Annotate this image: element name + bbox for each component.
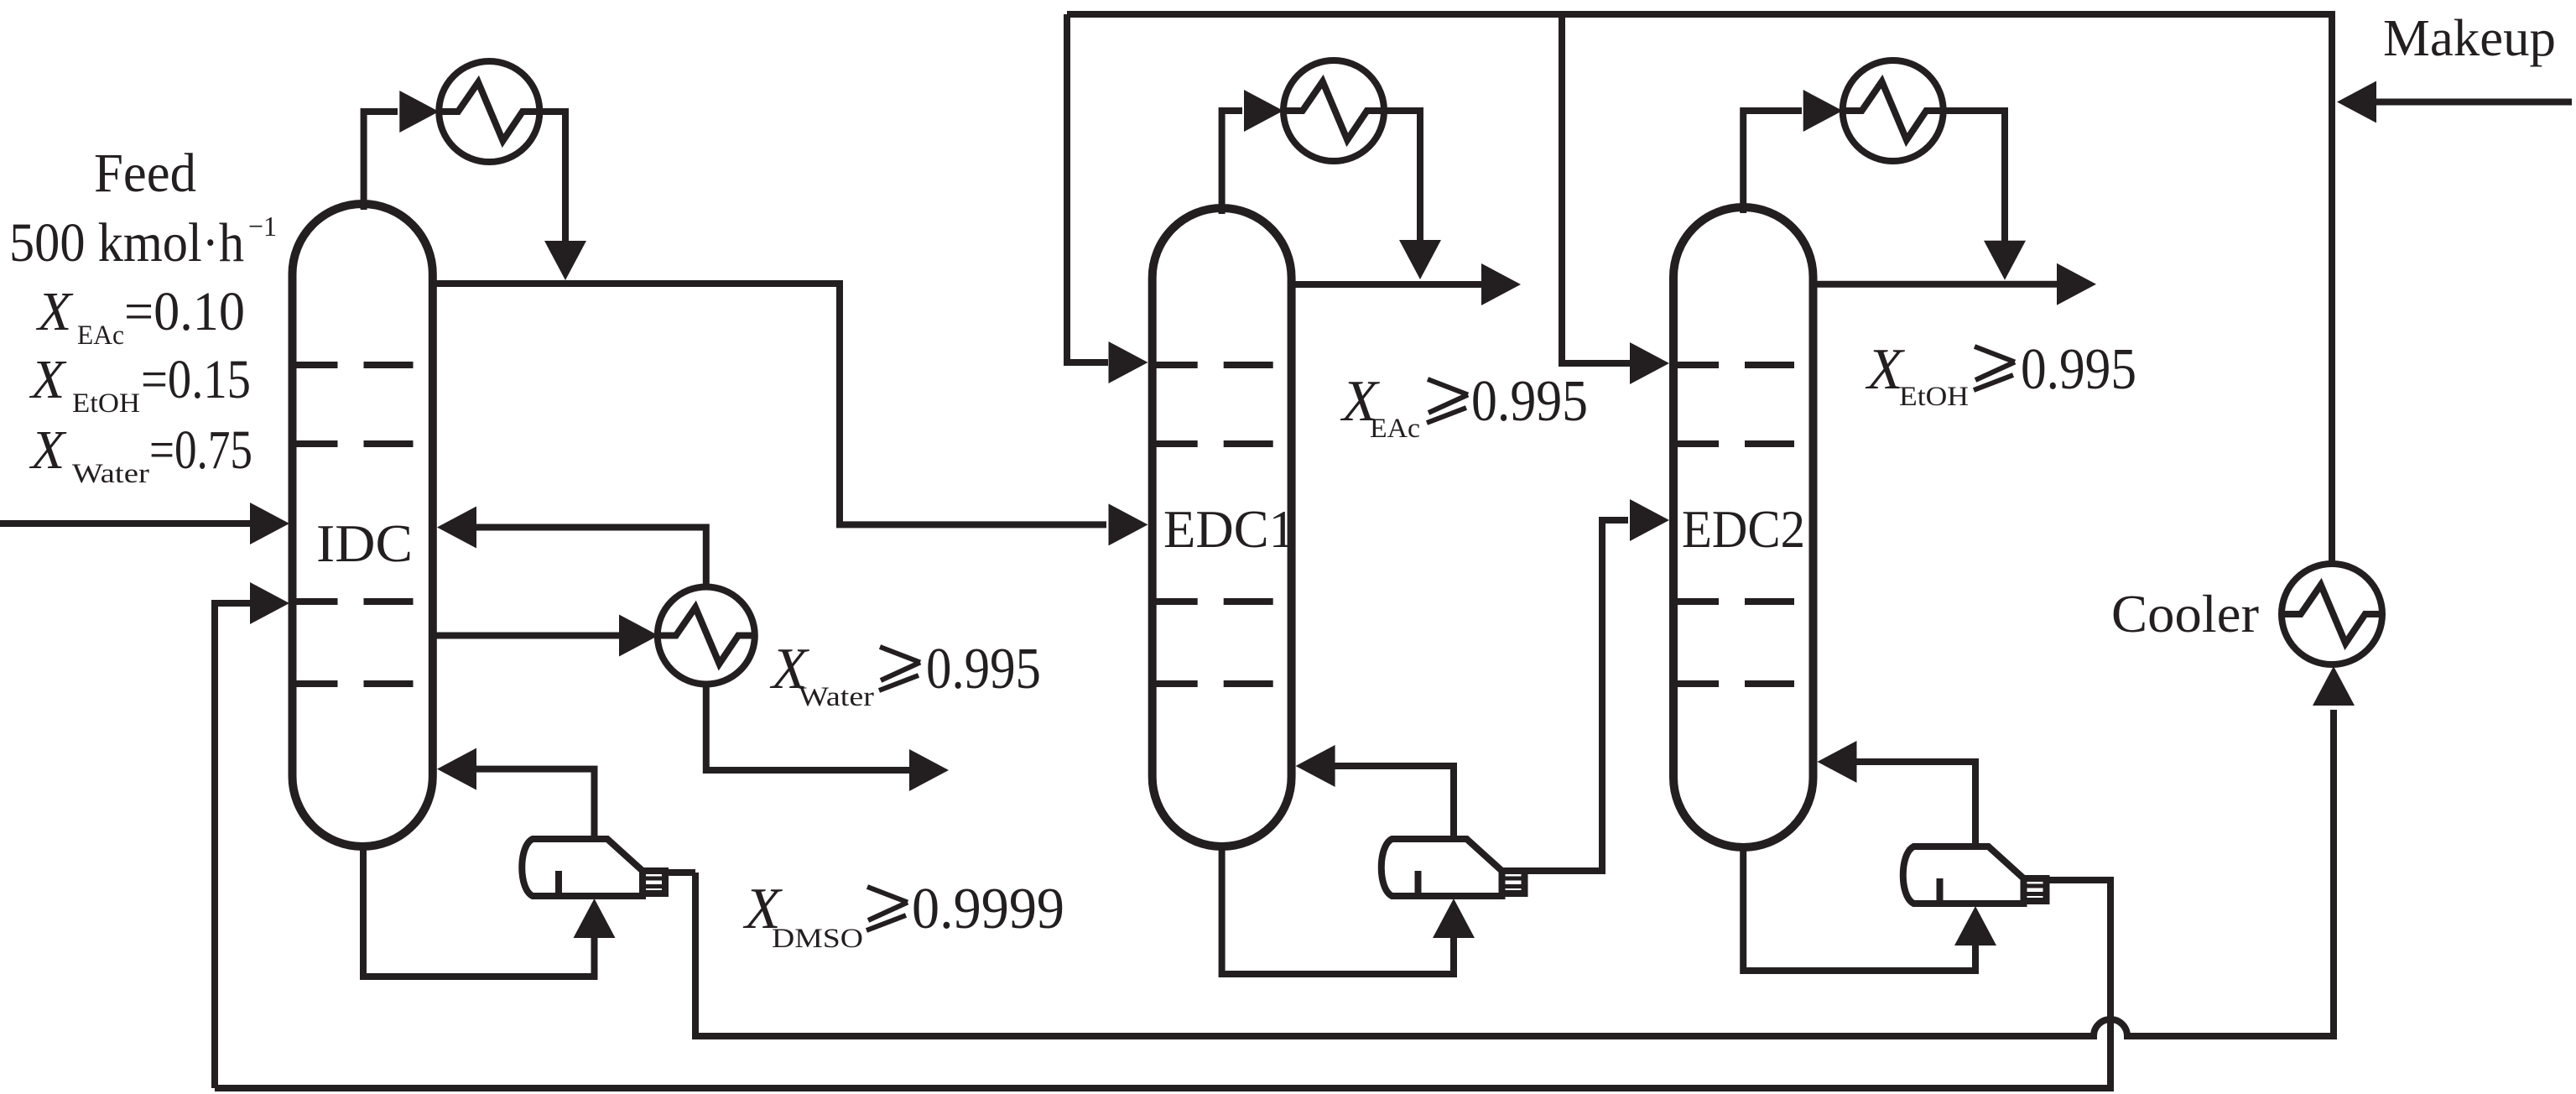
wire EDC1 reboiler vapor return — [1334, 766, 1454, 840]
wire EDC2 reboiler vapor return — [1855, 762, 1975, 847]
heat exchanger water product cooler — [658, 587, 755, 685]
reboiler EDC2 — [1903, 847, 2047, 904]
wire EDC2 overhead vapor to condenser — [1743, 111, 1802, 213]
svg-text:EDC1: EDC1 — [1163, 500, 1295, 559]
svg-text:EDC2: EDC2 — [1682, 500, 1805, 559]
wire EDC1 bottoms to reboiler — [1222, 843, 1454, 974]
arrow into EDC2 condenser — [1803, 90, 1843, 132]
arrow EDC2 product out — [2057, 263, 2096, 305]
arrow reflux down onto EDC1 product line — [1399, 240, 1441, 279]
svg-text:=0.15: =0.15 — [141, 349, 251, 410]
arrow reboiler return into EDC2 — [1818, 741, 1857, 783]
wire solvent recycle riser into IDC — [215, 603, 252, 1088]
wire IDC side draw to water cooler — [433, 633, 619, 639]
arrow reflux down onto EDC2 product line — [1984, 241, 2026, 280]
wire EDC2 bottoms to reboiler — [1743, 844, 1975, 971]
svg-text:X: X — [29, 419, 67, 481]
arrow into EDC1 condenser — [1244, 90, 1283, 132]
svg-text:EAc: EAc — [77, 320, 124, 351]
svg-text:0.9999: 0.9999 — [912, 877, 1064, 941]
svg-text:0.995: 0.995 — [1471, 369, 1588, 434]
cooler heat exchanger — [2282, 564, 2382, 664]
arrow up into Cooler — [2313, 666, 2355, 706]
column IDC shell — [293, 204, 433, 847]
arrow reboiler return into IDC — [437, 748, 476, 790]
arrow EDC1 product out — [1481, 263, 1521, 305]
wire return from side cooler into IDC — [476, 528, 706, 589]
svg-text:X: X — [29, 349, 67, 410]
wire water product line — [706, 685, 911, 771]
svg-text:=0.10: =0.10 — [124, 281, 245, 342]
arrow into water cooler — [619, 615, 658, 657]
svg-text:IDC: IDC — [316, 514, 413, 573]
svg-text:EtOH: EtOH — [72, 388, 140, 419]
wire IDC overhead vapor to condenser — [364, 112, 398, 210]
svg-text:=0.75: =0.75 — [149, 419, 252, 481]
wire EDC2 distillate product line — [1814, 281, 2059, 288]
svg-text:Water: Water — [72, 459, 149, 489]
wire EDC1 bottoms to EDC2 feed — [1523, 520, 1629, 871]
column EDC1 shell — [1153, 208, 1292, 847]
wire IDC distillate line to EDC1 feed — [433, 284, 1106, 524]
arrow solvent into EDC1 — [1109, 341, 1148, 383]
wire IDC bottoms to reboiler — [363, 846, 595, 977]
reboiler EDC1 — [1382, 839, 1525, 896]
svg-text:0.995: 0.995 — [2021, 337, 2136, 402]
wire EDC1 condenser outlet down — [1384, 111, 1420, 242]
arrow Makeup into solvent riser — [2337, 81, 2376, 123]
wire IDC bottoms product to cooler (long bottom line with hop) — [664, 869, 695, 876]
wire IDC reboiler vapor return — [475, 769, 595, 839]
svg-text:Cooler: Cooler — [2111, 584, 2259, 643]
wire Feed inlet line — [0, 520, 251, 527]
svg-text:Feed: Feed — [94, 143, 196, 204]
svg-text:Water: Water — [799, 682, 874, 712]
svg-text:Makeup: Makeup — [2383, 10, 2556, 67]
wire solvent top line to EDC1 — [1067, 14, 1108, 362]
arrow recycle into IDC — [250, 582, 289, 624]
wire EDC1 distillate product line — [1292, 281, 1483, 288]
arrow reboiler return into EDC1 — [1296, 745, 1335, 787]
column EDC2 shell — [1673, 207, 1814, 847]
reboiler IDC — [522, 839, 665, 896]
condenser (heat exchanger) EDC1 — [1283, 60, 1384, 161]
wire IDC condenser outlet down to distillate line — [539, 112, 565, 243]
column IDC tray dashes — [295, 362, 338, 368]
arrow into IDC condenser — [399, 91, 439, 133]
arrow bottoms up into EDC1 reboiler — [1433, 899, 1475, 938]
column EDC1 tray dashes — [1155, 362, 1198, 368]
arrow feed into EDC1 — [1109, 503, 1148, 545]
svg-text:EAc: EAc — [1370, 414, 1420, 444]
wire EDC2 bottoms (solvent) to recycle bottom line — [215, 880, 2110, 1088]
arrow water product out — [909, 749, 949, 791]
arrow feed into EDC2 — [1630, 499, 1669, 541]
svg-text:−1: −1 — [248, 211, 277, 242]
wire cooler to top solvent header — [1067, 14, 2332, 564]
arrow solvent into EDC2 — [1630, 342, 1669, 384]
arrow reflux down onto distillate line — [544, 241, 586, 280]
wire Makeup inlet — [2376, 99, 2572, 106]
column EDC2 tray dashes — [1676, 362, 1719, 368]
wire EDC1 overhead vapor to condenser — [1222, 111, 1242, 214]
wire solvent top line branch to EDC2 — [1562, 14, 1630, 363]
arrow return into IDC right wall — [437, 507, 476, 549]
svg-text:EtOH: EtOH — [1899, 382, 1969, 412]
condenser (heat exchanger) EDC2 — [1843, 60, 1944, 161]
arrow bottoms up into EDC2 reboiler — [1954, 906, 1996, 946]
svg-text:0.995: 0.995 — [926, 637, 1041, 701]
svg-text:DMSO: DMSO — [772, 924, 863, 954]
arrow Feed into IDC — [250, 503, 289, 544]
svg-text:X: X — [35, 281, 74, 342]
svg-text:500 kmol·h: 500 kmol·h — [9, 212, 244, 273]
arrow bottoms up into reboiler — [574, 899, 616, 938]
condenser (heat exchanger) IDC — [439, 61, 539, 162]
wire EDC2 condenser outlet down — [1944, 111, 2005, 242]
